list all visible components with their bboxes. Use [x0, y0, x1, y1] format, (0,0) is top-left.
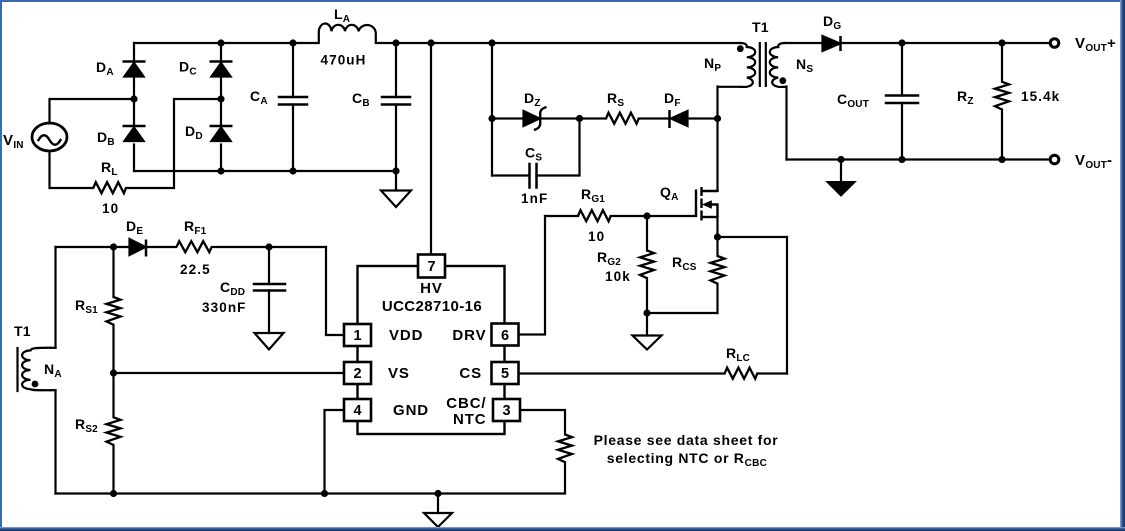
svg-text:QA: QA: [660, 184, 679, 203]
svg-text:T1: T1: [14, 323, 31, 339]
svg-text:Please see data sheet for: Please see data sheet for: [594, 432, 779, 448]
svg-text:10: 10: [102, 201, 119, 216]
svg-text:22.5: 22.5: [180, 262, 211, 277]
svg-text:DG: DG: [823, 13, 841, 32]
svg-text:DF: DF: [664, 90, 681, 109]
svg-text:GND: GND: [393, 402, 429, 419]
svg-text:RS: RS: [607, 90, 624, 109]
svg-text:NP: NP: [704, 55, 721, 74]
svg-text:6: 6: [501, 328, 509, 344]
svg-text:2: 2: [353, 366, 361, 382]
svg-text:CA: CA: [250, 88, 268, 107]
svg-text:COUT: COUT: [837, 91, 869, 110]
svg-text:DC: DC: [179, 59, 197, 78]
svg-text:NTC: NTC: [453, 411, 487, 428]
svg-text:5: 5: [501, 366, 509, 382]
svg-text:selecting NTC or RCBC: selecting NTC or RCBC: [607, 450, 767, 469]
svg-text:DB: DB: [97, 129, 115, 148]
svg-text:15.4k: 15.4k: [1021, 89, 1060, 104]
svg-text:RS1: RS1: [75, 297, 98, 316]
svg-text:UCC28710-16: UCC28710-16: [382, 298, 482, 315]
svg-text:4: 4: [353, 403, 361, 419]
svg-text:RF1: RF1: [184, 218, 207, 237]
svg-text:CS: CS: [525, 145, 542, 164]
svg-text:HV: HV: [420, 280, 443, 297]
svg-text:CBC/: CBC/: [446, 395, 486, 412]
svg-text:DRV: DRV: [452, 327, 486, 344]
svg-text:VOUT-: VOUT-: [1075, 152, 1112, 171]
svg-text:470uH: 470uH: [320, 53, 366, 68]
svg-text:VDD: VDD: [389, 327, 423, 344]
svg-text:3: 3: [502, 403, 510, 419]
svg-text:RL: RL: [101, 159, 118, 178]
svg-text:10: 10: [588, 229, 605, 244]
svg-text:DZ: DZ: [524, 90, 541, 109]
svg-text:7: 7: [427, 259, 435, 275]
svg-text:LA: LA: [334, 6, 350, 25]
svg-text:VIN: VIN: [3, 132, 24, 151]
svg-text:DD: DD: [185, 123, 203, 142]
svg-text:RLC: RLC: [726, 345, 750, 364]
svg-text:RZ: RZ: [957, 88, 974, 107]
svg-text:1: 1: [353, 328, 361, 344]
svg-text:DE: DE: [126, 218, 143, 237]
svg-text:CS: CS: [459, 365, 482, 382]
svg-text:VS: VS: [388, 365, 410, 382]
svg-text:CDD: CDD: [220, 279, 245, 298]
svg-text:RS2: RS2: [75, 416, 98, 435]
svg-text:330nF: 330nF: [202, 300, 247, 315]
svg-text:RG2: RG2: [597, 249, 621, 268]
svg-text:RG1: RG1: [581, 186, 605, 205]
svg-text:1nF: 1nF: [521, 191, 548, 206]
svg-text:10k: 10k: [605, 269, 631, 284]
svg-text:RCS: RCS: [672, 254, 697, 273]
svg-text:DA: DA: [96, 59, 114, 78]
svg-text:CB: CB: [352, 90, 370, 109]
svg-text:NA: NA: [44, 361, 62, 380]
svg-text:VOUT+: VOUT+: [1075, 35, 1116, 54]
svg-text:NS: NS: [796, 56, 813, 75]
svg-text:T1: T1: [752, 19, 769, 35]
